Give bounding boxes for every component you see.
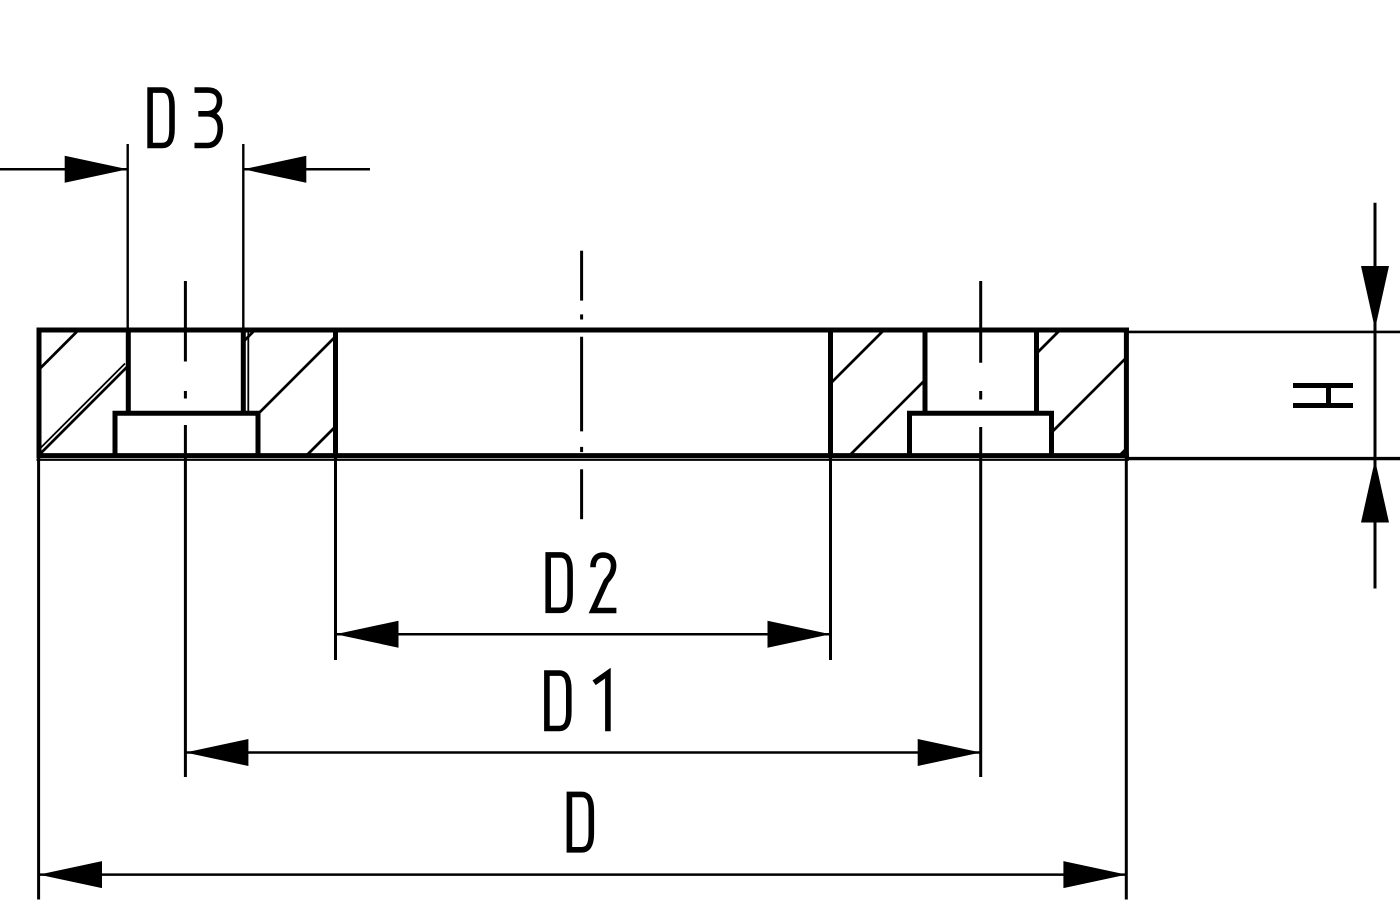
dimension D line <box>39 873 1126 876</box>
hatch line D1 tick <box>1037 331 1060 354</box>
D2 extension line right <box>829 458 832 660</box>
label D1 letter D <box>547 673 569 728</box>
hatch line C1 <box>831 331 884 384</box>
dimension D1 right arrow <box>918 739 981 766</box>
main center line <box>580 251 583 520</box>
right hole left edge <box>923 328 928 414</box>
hatch line B1 tick <box>243 331 255 343</box>
label D2 letter D <box>548 555 570 610</box>
right counterbore left edge <box>907 411 912 456</box>
dimension H top arrow <box>1361 266 1389 329</box>
dimension D2 right arrow <box>768 621 831 648</box>
left counterbore right edge <box>256 411 261 456</box>
left hole right edge <box>241 328 246 414</box>
hatch line B2 <box>259 337 336 414</box>
top H extension line <box>1126 331 1400 334</box>
dimension D3 line left part <box>0 168 128 171</box>
left counterbore left edge <box>113 411 118 456</box>
dimension D3 left arrow <box>65 156 128 183</box>
bore left edge <box>333 328 338 459</box>
label D3 digit 3 <box>195 90 221 145</box>
right counterbore right edge <box>1049 411 1054 456</box>
dimension D3 line right part <box>243 168 370 171</box>
left hole left edge <box>126 328 131 414</box>
flange outline right edge <box>1124 328 1129 459</box>
hatch line B3 <box>306 427 336 457</box>
dimension D right arrow <box>1063 861 1126 888</box>
left counterbore top edge <box>113 411 261 416</box>
hatch line A2 <box>39 366 128 455</box>
dimension D2 left arrow <box>336 621 399 648</box>
right counterbore top edge <box>907 411 1054 416</box>
hatch line C2 <box>849 380 925 456</box>
right hole right edge <box>1034 328 1039 414</box>
D extension line left <box>37 458 40 900</box>
label D letter D <box>569 794 591 849</box>
flange outline left edge <box>37 328 42 459</box>
D extension line right <box>1125 458 1128 900</box>
flange outline top edge <box>37 328 1129 333</box>
label D1 digit 1 <box>594 673 608 731</box>
left hole right edge thin double <box>247 331 249 412</box>
left hole center line (also D1 extension) <box>184 281 187 777</box>
hatch line A2 thin double <box>39 364 125 450</box>
dimension H bottom arrow <box>1361 460 1389 523</box>
flange outline bottom edge <box>37 453 1129 458</box>
bore right edge <box>828 328 833 459</box>
right hole center line (also D1 extension) <box>979 281 982 777</box>
dimension D2 line <box>336 633 831 636</box>
hatch line D2 <box>1052 358 1127 433</box>
D3 extension line left <box>126 144 128 330</box>
bottom thin line full width (H extension) <box>37 459 1129 461</box>
hatch line A1 <box>39 331 78 370</box>
D3 extension line right <box>242 144 244 330</box>
dimension D1 left arrow <box>185 739 248 766</box>
dimension D left arrow <box>39 861 102 888</box>
hatch line D3 tick <box>1119 449 1126 456</box>
label D2 digit 2 <box>593 555 616 610</box>
label D3 letter D <box>150 90 172 145</box>
dimension H line <box>1374 203 1377 589</box>
label H (rotated) <box>1293 386 1353 406</box>
dimension D1 line <box>185 751 980 754</box>
D2 extension line left <box>334 458 337 660</box>
dimension D3 right arrow <box>243 156 306 183</box>
